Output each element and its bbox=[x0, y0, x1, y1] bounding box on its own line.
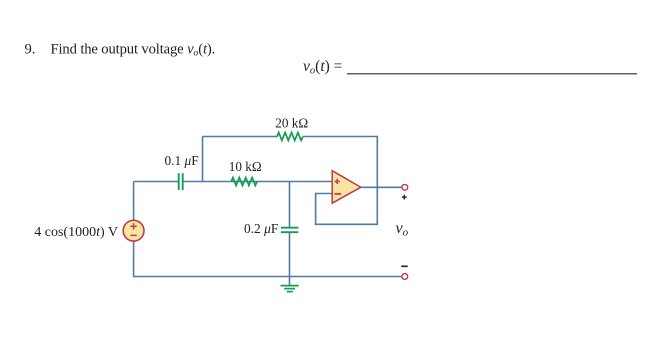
wire: inverting loop bottom horizontal bbox=[316, 223, 378, 225]
wire: 0.2uF branch upper bbox=[289, 182, 291, 228]
wire: bottom rail bbox=[133, 276, 402, 278]
wire: 0.2uF branch lower bbox=[289, 232, 291, 276]
wire: main input row from cap to op-amp + input bbox=[183, 181, 332, 183]
svg-text:9.: 9. bbox=[25, 41, 36, 57]
svg-text:20 kΩ: 20 kΩ bbox=[275, 115, 308, 130]
wire: left vertical through source bbox=[133, 182, 135, 277]
resistor 20 kOhm zigzag bbox=[277, 133, 303, 141]
resistor 10 kOhm zigzag bbox=[231, 178, 257, 186]
op-amp - input mark bbox=[335, 193, 342, 195]
svg-text:10 kΩ: 10 kΩ bbox=[229, 159, 262, 174]
wire: top feedback rail left of 20k resistor bbox=[203, 136, 278, 138]
svg-text:0.2 μF: 0.2 μF bbox=[244, 221, 278, 236]
terminal + (output) bbox=[402, 184, 408, 190]
wire: inverting input horizontal stub bbox=[316, 193, 333, 195]
source + mark bbox=[130, 223, 136, 229]
wire: ground stub bbox=[289, 277, 291, 286]
wire: main input row left of 0.1uF cap bbox=[134, 181, 178, 183]
terminal - (lower) bbox=[402, 274, 408, 280]
op-amp U1 bbox=[332, 171, 361, 204]
capacitor C1 0.1uF plates bbox=[179, 173, 183, 190]
source Vs 4cos(1000t) V bbox=[123, 220, 144, 241]
wire: top feedback rail right of 20k resistor bbox=[303, 136, 377, 138]
wire: feedback vertical at right bbox=[376, 136, 378, 225]
answer blank line bbox=[347, 73, 637, 75]
ground bbox=[281, 286, 299, 292]
minus sign at lower terminal bbox=[401, 265, 407, 267]
svg-text:Find the output voltage vo(t).: Find the output voltage vo(t). bbox=[51, 41, 216, 58]
svg-text:0.1 μF: 0.1 μF bbox=[164, 153, 198, 168]
wire: inverting loop vertical bbox=[315, 193, 317, 225]
capacitor C2 0.2uF plates bbox=[281, 228, 298, 233]
source - mark bbox=[130, 234, 136, 236]
svg-text:4 cos(1000t) V: 4 cos(1000t) V bbox=[34, 225, 118, 240]
op-amp + input mark bbox=[335, 179, 340, 184]
wire: vertical branch from node A up to feedback rail bbox=[202, 137, 204, 182]
svg-text:vo(t) =: vo(t) = bbox=[303, 58, 342, 77]
wire: op-amp output to + terminal bbox=[361, 186, 402, 188]
plus sign at output terminal bbox=[402, 195, 407, 200]
